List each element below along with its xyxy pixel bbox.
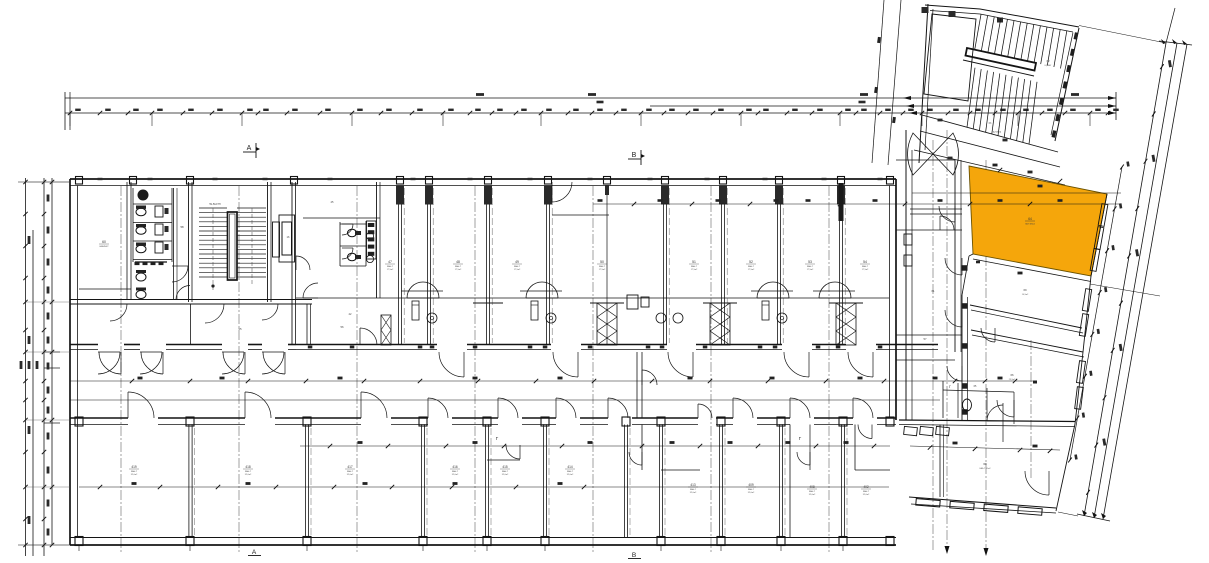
left block office wall [126,182,128,300]
facade dimension line y204 across upper rooms and wing [593,199,1121,206]
svg-text:57: 57 [923,337,927,341]
left block mid arcs at 302 [110,304,127,321]
svg-text:ЗАЛ 68м2: ЗАЛ 68м2 [1025,223,1036,226]
svg-text:17,5м2: 17,5м2 [807,269,814,271]
svg-text:68: 68 [983,462,987,466]
grid axis with arrow x947 [946,130,948,546]
svg-text:17,5м2: 17,5м2 [748,269,755,271]
svg-text:17,5м2: 17,5м2 [514,269,521,271]
top wall window sill marks [98,178,883,180]
toilet zone right wall [188,182,190,302]
svg-text:17,5м2: 17,5м2 [387,269,394,271]
wing lower block 68 top wall [899,420,1075,422]
wing stair block right wall [1055,28,1079,141]
stair walk line [212,208,214,292]
svg-text:КАБ-Т: КАБ-Т [455,265,462,268]
lower band top wall [70,417,896,426]
section marker B top [628,150,645,165]
wing left wall mid [961,295,963,420]
upper band partitions [396,182,845,345]
svg-text:B: B [632,152,637,159]
svg-text:414: 414 [567,465,573,469]
svg-text:59 ЛЕСТН: 59 ЛЕСТН [209,203,221,206]
wing sliver door arc [981,328,995,342]
svg-text:50: 50 [600,260,604,264]
svg-text:409: 409 [748,483,754,487]
wing block68 corner extension [1058,512,1078,516]
svg-text:КАБ-Т 41м2: КАБ-Т 41м2 [980,467,992,470]
upper rooms door domes at bathroom line [401,282,855,298]
svg-text:КАБ-Т: КАБ-Т [748,265,755,268]
stair flight treads [199,208,266,277]
upper rooms shaft ladders [473,184,863,345]
connector horizontal stub [896,359,955,361]
svg-text:67 ПУЗ: 67 ПУЗ [993,131,1002,134]
toilet suite door arcs [303,283,318,298]
svg-text:17,5м2: 17,5м2 [599,269,606,271]
svg-text:КАБ-Т: КАБ-Т [387,265,394,268]
svg-text:17,5м2: 17,5м2 [862,269,869,271]
wing block68 interior dim line [910,442,1060,453]
wing left wall window blocks [962,265,968,415]
orange hall room [969,166,1107,276]
svg-text:48: 48 [456,260,460,264]
connector small door arc [939,206,955,222]
svg-text:КАБ-Т: КАБ-Т [567,470,574,473]
corridor dimension marks [130,377,938,384]
upper rooms labels [385,260,870,271]
svg-text:32,0м2: 32,0м2 [347,474,354,476]
svg-text:61: 61 [931,289,935,293]
corridor upper line [70,380,1035,382]
upper band front wall [70,345,938,350]
left section right wall [291,182,293,345]
wing small vertical wall lower [939,425,941,498]
toilet stalls walls [133,188,172,262]
svg-text:53: 53 [808,260,812,264]
svg-text:КАБ-Т: КАБ-Т [809,490,816,493]
top dimension arrowheads at wing boundary [903,96,911,100]
svg-text:A: A [252,549,257,556]
svg-text:402: 402 [863,485,869,489]
corridor cross wall [636,352,638,418]
grid axis x933 [932,140,934,552]
svg-text:60: 60 [102,240,106,244]
upper rooms sinks [427,313,437,323]
second toilet suite walls [303,182,380,298]
right window dimension line [1067,161,1129,462]
top wall pilasters [76,177,894,185]
top dimension line lower [65,112,1116,114]
svg-text:КАБ-Т: КАБ-Т [514,265,521,268]
top dimension line middle [650,105,1116,107]
right short extension lines [1079,26,1166,44]
office inner wall [79,288,131,290]
wing door arcs mid [945,258,962,275]
svg-text:КАБ-Т: КАБ-Т [131,470,138,473]
grid axis x986 [985,160,987,548]
svg-text:52: 52 [749,260,753,264]
wing stair treads upper flight [975,14,1067,68]
left dimension ticks [23,180,27,184]
wide room table line [552,214,609,216]
svg-text:58: 58 [180,225,184,229]
svg-text:17,5м2: 17,5м2 [691,269,698,271]
svg-text:55: 55 [238,327,242,331]
svg-text:54: 54 [863,260,867,264]
section marker B bottom [628,552,641,559]
upper band bathroom zone line [296,297,889,299]
svg-text:66: 66 [1010,373,1014,377]
lower rooms sub-partitions [487,425,890,538]
lower band wall pilasters [75,417,83,426]
svg-text:A: A [247,145,252,152]
bathroom T stub [473,302,503,304]
svg-text:408: 408 [809,485,815,489]
right dimension bottom terminator [1077,514,1110,521]
wing lower block bottom window band [909,497,1056,515]
svg-text:КАБ-Т: КАБ-Т [452,470,459,473]
main building bottom wall [70,544,896,546]
wing stair block left wall [919,4,928,163]
svg-text:Г: Г [949,385,951,389]
top dimension right terminator [1115,92,1117,120]
second toilet shaft hatch [367,221,377,259]
main building top wall [70,178,896,180]
svg-text:КАБ-Т: КАБ-Т [862,265,869,268]
second toilet sinks [366,232,373,239]
facade dimension line y193 wing [912,192,1121,194]
wing room66 dim line ticks [953,377,1037,384]
upper band thin divider [606,186,608,345]
svg-text:КАБИНЕТ: КАБИНЕТ [99,245,109,248]
left block front wall [70,344,98,346]
elevator room [279,215,295,262]
svg-text:32,0м2: 32,0м2 [567,474,574,476]
wing hall walls fan [922,115,1058,152]
wing wall sliver band [971,330,1083,352]
bottom wall pilasters [75,537,894,546]
toilet lobby wall [173,188,175,300]
wing left boundary slanted lines [872,0,884,163]
svg-text:14,9м2: 14,9м2 [1022,294,1029,296]
svg-text:32,0м2: 32,0м2 [131,474,138,476]
connector butterfly double door [908,133,959,175]
svg-text:КАБ-Т: КАБ-Т [502,470,509,473]
top dimension line upper [65,97,1116,99]
svg-text:B: B [632,552,636,559]
left dimension lines [18,178,70,556]
svg-text:51: 51 [692,260,696,264]
wing bathroom cluster [943,381,1014,424]
svg-text:32,0м2: 32,0м2 [690,492,697,494]
lower rooms inner dimension line [79,441,890,489]
wing window strip right edge [1075,204,1108,410]
svg-text:32,0м2: 32,0м2 [452,474,459,476]
main building right wall [889,186,891,419]
connector right wall [954,160,956,352]
svg-text:ЩУВАТ: ЩУВАТ [1045,64,1053,67]
connector wall y335 [896,334,962,336]
svg-text:64: 64 [1028,217,1032,221]
wing stair central landing bar [963,48,1036,76]
wing wall below room69 [970,305,1082,328]
svg-text:56: 56 [340,325,344,329]
left block corridor arcs [98,352,120,374]
elevator shaft [273,222,280,257]
lower rooms labels [129,465,871,496]
vertical grid axes [121,130,989,556]
left mid rooms partitions [191,304,344,345]
top dimension ticks and texts [68,93,1119,126]
right dimension ticks and texts [1159,64,1164,69]
svg-text:32,0м2: 32,0м2 [245,474,252,476]
wing stair block top wall [925,5,1079,27]
wing stair right wall hatch [1052,32,1079,138]
wing right edge polyline [1056,194,1107,511]
right angled dimension lines [1077,8,1192,521]
left dimension texts [47,195,50,202]
svg-text:416: 416 [452,465,458,469]
svg-text:69: 69 [1023,288,1027,292]
toilet lobby door arcs [172,266,188,282]
lower band partitions [189,425,847,538]
connector wall y230 [896,229,962,231]
svg-text:32,0м2: 32,0м2 [502,474,509,476]
svg-text:419: 419 [131,465,137,469]
wing stair treads lower flight [967,68,1037,144]
toilet suite corridor ladder [381,315,391,345]
orange room wall ticks [976,164,1062,275]
left block bottom wall [70,299,312,301]
svg-text:32,0м2: 32,0м2 [863,494,870,496]
wing stair landing room [924,14,976,101]
section marker A top [243,143,260,158]
lower rooms dim line right half y446 [300,445,890,447]
corridor door arcs from upper rooms [99,352,873,377]
door jambs room 665 [627,295,638,309]
tall dark pier at partition 841 [839,183,844,221]
toilet stall front marks [135,262,164,265]
svg-text:КАБ-Т: КАБ-Т [807,265,814,268]
svg-text:КАБ-Т: КАБ-Т [347,470,354,473]
wing teeth row upper [904,426,950,435]
svg-text:49: 49 [515,260,519,264]
svg-text:КАБ-Т: КАБ-Т [690,488,697,491]
toilet urinal column [155,206,169,253]
svg-text:418: 418 [245,465,251,469]
stair right wall [267,182,269,302]
front wall dimension marks [308,346,883,349]
wing hall ticks [938,119,943,122]
svg-text:415: 415 [502,465,508,469]
svg-text:47: 47 [388,260,392,264]
connector door arc y230 [940,216,954,230]
svg-text:КАБ-Т: КАБ-Т [863,490,870,493]
svg-text:62: 62 [1046,59,1050,63]
svg-text:КАБ-Т: КАБ-Т [245,470,252,473]
wing grid axis x1031 [1030,340,1032,480]
svg-text:413: 413 [690,483,696,487]
second toilet WC bowls [342,224,374,263]
right dimension top terminator [1159,41,1192,45]
toilet fixtures WC bowls [136,190,149,299]
left dimension terminators [18,181,70,183]
svg-text:17,5м2: 17,5м2 [455,269,462,271]
wing room66 door at bottom wall [987,405,1003,421]
wing orange bottom wall double [973,259,1091,282]
connector left wall [905,130,907,420]
wing block68 door arc [1025,471,1049,495]
svg-text:КАБ-Т: КАБ-Т [599,265,606,268]
svg-text:32,0м2: 32,0м2 [748,492,755,494]
section marker A bottom [248,549,261,556]
svg-text:32,0м2: 32,0м2 [809,494,816,496]
wing stair top piers [922,7,929,13]
top dimension left terminator [64,92,66,130]
bottom wall lower ticks [79,545,843,551]
corridor door arcs from lower rooms [128,392,873,418]
connector wall y210 [910,208,962,210]
corridor lower line [70,399,940,401]
wide room top door arc [552,182,572,202]
connector top stub [896,159,955,161]
upper rooms bathroom shafts [412,295,787,323]
connector window blocks on left wall [904,234,912,245]
main building left wall [69,179,71,545]
stair central rail [228,212,238,280]
svg-text:417: 417 [347,465,353,469]
svg-text:КАБ-Т: КАБ-Т [748,488,755,491]
svg-text:КАБ-Т: КАБ-Т [691,265,698,268]
